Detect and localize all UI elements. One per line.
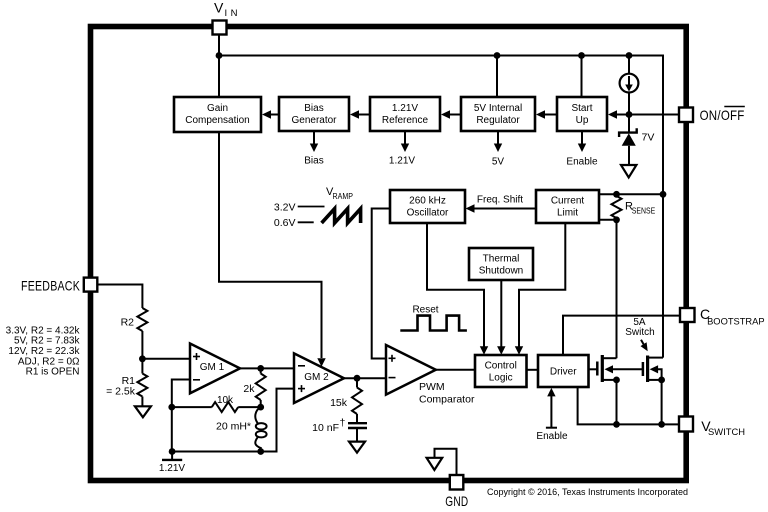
svg-text:15k: 15k — [330, 397, 348, 409]
svg-text:GM 2: GM 2 — [304, 372, 329, 383]
svg-text:†: † — [340, 417, 346, 429]
svg-text:0.6V: 0.6V — [274, 217, 296, 229]
svg-text:7V: 7V — [642, 132, 655, 144]
svg-text:Bias: Bias — [304, 156, 323, 167]
svg-text:Current: Current — [551, 196, 585, 207]
svg-text:3.2V: 3.2V — [274, 201, 296, 213]
svg-text:Limit: Limit — [557, 208, 578, 219]
svg-text:SENSE: SENSE — [632, 206, 656, 216]
svg-text:Generator: Generator — [291, 115, 337, 126]
svg-text:Driver: Driver — [550, 367, 577, 378]
svg-text:PWM: PWM — [419, 381, 445, 393]
svg-text:Freq. Shift: Freq. Shift — [477, 195, 523, 206]
svg-text:V: V — [214, 0, 224, 16]
svg-text:2k: 2k — [243, 383, 255, 395]
svg-text:Enable: Enable — [566, 157, 598, 168]
svg-text:Regulator: Regulator — [476, 115, 520, 126]
svg-text:Reference: Reference — [382, 115, 429, 126]
svg-text:Comparator: Comparator — [419, 394, 475, 406]
svg-text:Bias: Bias — [304, 103, 323, 114]
svg-text:Compensation: Compensation — [185, 115, 249, 126]
svg-text:SWITCH: SWITCH — [708, 427, 745, 438]
svg-text:BOOTSTRAP: BOOTSTRAP — [707, 317, 765, 328]
svg-text:20 mH*: 20 mH* — [216, 421, 251, 433]
svg-text:Copyright © 2016, Texas Instru: Copyright © 2016, Texas Instruments Inco… — [487, 487, 688, 498]
svg-text:Switch: Switch — [625, 327, 654, 338]
svg-text:GM 1: GM 1 — [200, 362, 225, 373]
svg-text:Logic: Logic — [489, 373, 513, 384]
svg-text:5V: 5V — [492, 157, 505, 168]
svg-text:Control: Control — [485, 361, 517, 372]
svg-text:5V Internal: 5V Internal — [474, 103, 522, 114]
svg-text:FEEDBACK: FEEDBACK — [21, 277, 80, 293]
svg-text:ON/OFF: ON/OFF — [700, 107, 745, 123]
svg-text:R2: R2 — [121, 317, 135, 329]
svg-text:Oscillator: Oscillator — [407, 208, 449, 219]
svg-text:Shutdown: Shutdown — [479, 266, 523, 277]
svg-text:GND: GND — [445, 493, 468, 509]
svg-text:Gain: Gain — [207, 103, 228, 114]
svg-text:Reset: Reset — [412, 304, 438, 315]
svg-text:IN: IN — [225, 8, 238, 19]
svg-text:Start: Start — [571, 103, 592, 114]
svg-text:Thermal: Thermal — [483, 254, 520, 265]
svg-text:= 2.5k: = 2.5k — [106, 386, 136, 398]
svg-text:RAMP: RAMP — [333, 191, 354, 201]
svg-text:Enable: Enable — [536, 431, 568, 442]
svg-text:1.21V: 1.21V — [392, 103, 418, 114]
svg-text:Up: Up — [576, 115, 589, 126]
svg-text:R1 is OPEN: R1 is OPEN — [26, 367, 80, 378]
svg-text:1.21V: 1.21V — [389, 156, 415, 167]
svg-text:260 kHz: 260 kHz — [409, 196, 446, 207]
svg-text:10k: 10k — [217, 395, 234, 406]
svg-text:10 nF: 10 nF — [312, 422, 339, 434]
svg-text:1.21V: 1.21V — [159, 463, 185, 474]
